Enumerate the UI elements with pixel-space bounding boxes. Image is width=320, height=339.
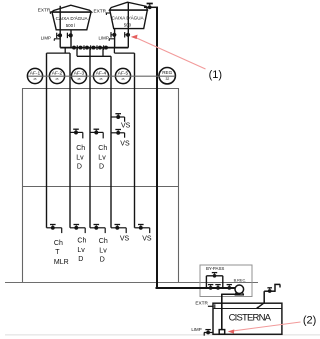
tank 1 outlet pipe (through tank) (59, 6, 61, 48)
tank 2 lid (110, 2, 148, 10)
float feed pipe (264, 284, 280, 303)
svg-text:Ch: Ch (54, 240, 63, 247)
svg-text:T: T (55, 249, 60, 256)
svg-text:VS: VS (120, 236, 130, 243)
tank 2 body CAIXA D'AGUA 500 (110, 10, 148, 28)
pump house box (200, 265, 252, 297)
branch AF-3 lower (Ch Lv D) (90, 225, 108, 264)
REG 32 circle (159, 68, 175, 84)
tank 1 valve left (58, 33, 62, 37)
tank 1 body CAIXA D'AGUA 500 l (52, 12, 91, 30)
manifold valve dots (72, 46, 76, 50)
svg-text:CISTERNA: CISTERNA (229, 313, 272, 324)
distribution line right (114, 52, 134, 54)
riser AF-2 pipe (69, 53, 71, 228)
by-pass valve (213, 274, 217, 278)
svg-text:EXTR: EXTR (195, 301, 208, 306)
main valve 3 (227, 286, 231, 290)
manifold left stub (64, 48, 66, 54)
tank 1 right drop pipe (70, 30, 72, 48)
ground line (faint) (5, 334, 320, 336)
riser id circle AF-3 (71, 68, 86, 83)
svg-text:AF-1: AF-1 (30, 71, 41, 77)
float feed valve (268, 289, 272, 293)
riser AF-5 pipe (134, 53, 136, 228)
svg-text:AF-4: AF-4 (96, 71, 107, 77)
suction pipe from pump to cisterna (238, 293, 240, 295)
annotation arrow 2 (233, 322, 301, 331)
tank 1 EXTR pipe (50, 11, 53, 13)
tank 1 valve right (69, 33, 73, 37)
main bottom pipe (156, 287, 236, 289)
wall right (178, 89, 180, 283)
svg-text:VS: VS (121, 122, 131, 129)
main top valve (148, 5, 152, 9)
cisterna EXTR pipe (208, 305, 214, 307)
riser AF-1 pipe (46, 53, 48, 228)
svg-text:D: D (99, 163, 104, 170)
svg-text:BY-PASS: BY-PASS (206, 266, 224, 271)
float lever (258, 303, 265, 308)
tank 2 valve right (126, 33, 130, 37)
svg-text:500 l: 500 l (66, 23, 76, 28)
riser id circle AF-2 (49, 68, 64, 83)
svg-text:Lv: Lv (99, 248, 107, 255)
foot strainer (219, 330, 225, 335)
main top pipe (144, 6, 158, 8)
tank 2 left drop pipe (114, 29, 116, 48)
main valve 1 (209, 286, 213, 290)
svg-text:D: D (100, 257, 105, 264)
svg-text:LIMP: LIMP (41, 36, 51, 41)
suction pipe vertical (221, 294, 223, 330)
tank 1 LIMP pipe (54, 38, 60, 40)
manifold pipe (60, 47, 128, 49)
branch AF-2 lower (Ch Lv D) (70, 225, 86, 264)
branch AF-4 upper VS 1 (111, 114, 131, 130)
svg-text:MLR: MLR (54, 259, 69, 266)
slab line mid (22, 186, 179, 188)
cisterna LIMP pipe + valve (204, 330, 213, 336)
cisterna tank (213, 303, 282, 334)
riser AF-4 pipe (110, 56, 112, 228)
svg-text:Ch: Ch (99, 238, 108, 245)
manifold right stub (113, 48, 115, 54)
distribution line center (77, 55, 111, 57)
svg-text:D: D (77, 163, 82, 170)
tank 2 valve left (112, 33, 116, 37)
svg-text:Ch: Ch (98, 145, 107, 152)
by-pass loop pipes (205, 276, 207, 288)
slab line bottom (5, 282, 258, 284)
svg-text:(2): (2) (303, 315, 316, 327)
svg-text:Lv: Lv (98, 154, 106, 161)
svg-text:Ch: Ch (76, 145, 85, 152)
riser id circle AF-4 (93, 68, 108, 83)
tank 2 EXTR pipe (106, 12, 110, 14)
tank 2 inlet pipe (through tank) (127, 2, 129, 47)
svg-text:VS: VS (142, 236, 152, 243)
svg-text:Ch: Ch (77, 237, 86, 244)
branch AF-4 lower (VS) (111, 225, 130, 243)
riser id circle AF-5 (115, 68, 130, 83)
tank 2 LIMP pipe (109, 38, 115, 40)
svg-text:EXTR: EXTR (94, 8, 107, 13)
svg-text:AF-3: AF-3 (74, 71, 85, 77)
pump B.REC. (234, 279, 247, 295)
svg-text:D: D (78, 256, 83, 263)
branch AF-4 upper VS 2 (111, 130, 130, 148)
svg-text:LIMP: LIMP (191, 327, 201, 332)
svg-text:Lv: Lv (76, 154, 84, 161)
svg-text:B.REC.: B.REC. (234, 279, 247, 283)
svg-text:32: 32 (166, 77, 170, 81)
REG connector pipe (157, 75, 160, 77)
distribution line left (47, 52, 71, 54)
svg-text:AF-5: AF-5 (118, 71, 129, 77)
wall left (22, 89, 24, 283)
branch AF-2 upper (Ch Lv D) (70, 129, 85, 170)
svg-text:Lv: Lv (77, 247, 85, 254)
svg-text:LIMP: LIMP (99, 36, 109, 41)
branch AF-5 lower (VS) (135, 225, 152, 243)
main valve 2 (216, 286, 220, 290)
tank 1 lid (52, 5, 92, 12)
svg-text:REG: REG (162, 70, 172, 75)
svg-text:VS: VS (120, 140, 130, 147)
manifold inner stubs (76, 48, 78, 57)
main riser pipe (156, 7, 158, 289)
slab line through circles (28, 75, 175, 77)
svg-text:AF-2: AF-2 (52, 71, 63, 77)
riser AF-3 pipe (89, 48, 91, 228)
riser id circle AF-1 (27, 68, 42, 83)
branch AF-3 upper (Ch Lv D) (90, 129, 107, 170)
slab line upper (22, 88, 179, 90)
svg-text:EXTR: EXTR (38, 8, 51, 13)
annotation arrow 1 (136, 38, 206, 70)
branch AF-1 lower (Ch T MLR) (47, 225, 69, 267)
svg-text:(1): (1) (209, 69, 222, 81)
